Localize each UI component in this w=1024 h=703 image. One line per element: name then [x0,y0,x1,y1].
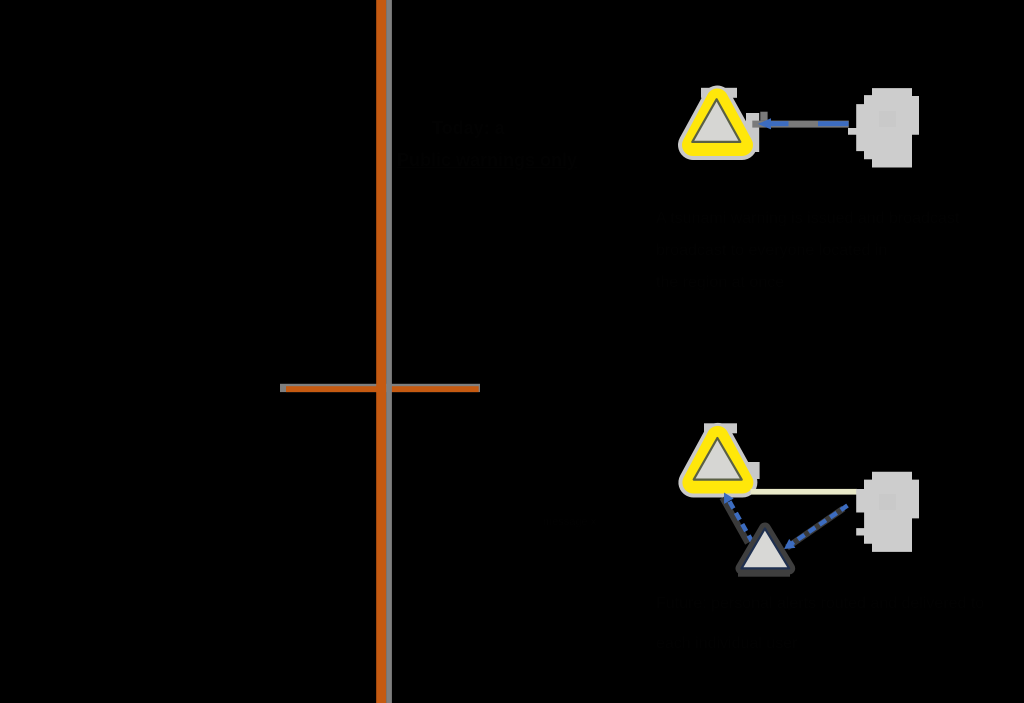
blue arrow A2 dashed line [730,502,753,542]
blue arrowhead A1 [758,118,771,129]
connector shadow gray band [752,121,849,128]
blob B2 (bottom person silhouette) [856,472,919,552]
small faint label [543,516,613,528]
warning icon W1 halo bump top [701,88,737,98]
blue arrow A2 head [724,493,734,504]
horizontal axis orange line [286,386,479,392]
warning icon W1 halo [693,101,742,146]
quadrant heading text (near-invisible dark) [397,112,612,176]
arrow shadow for blue arrow A2 [723,498,749,544]
warning icon W1 inner triangle [692,99,740,142]
vertical axis orange line [376,0,386,703]
small triangle T1 [742,529,790,569]
bottom-right paragraph (near-invisible dark) [656,584,1024,664]
warning icon W2 halo [693,438,742,483]
small triangle T1 halo [742,529,790,569]
warning icon W1 yellow body [693,100,742,146]
top-right paragraph (near-invisible dark) [656,203,976,299]
blob B1 (top person silhouette) [848,88,919,167]
blue arrow A3 dashed line [791,506,848,545]
vertical axis gray line [386,0,392,703]
warning icon W1 halo bump right [746,113,759,152]
blob B1 inner shade [879,111,896,127]
warning icon W2 halo bump top [704,423,737,433]
warning icon W2 yellow body [693,437,742,483]
pale yellow inactive connector [751,489,858,495]
connector shadow upper block [760,112,767,121]
horizontal axis gray line [280,384,480,392]
blue dash segment 1 [769,121,789,126]
warning icon W2 halo bump right [746,462,760,479]
blue arrow A3 head [784,539,795,549]
small triangle T1 halo bottom band [738,568,790,576]
blob B2 inner shade [879,494,896,510]
arrow shadow for blue arrow A3 [787,509,844,548]
blue dash segment 2 [818,121,849,126]
warning icon W2 inner triangle [694,438,742,480]
